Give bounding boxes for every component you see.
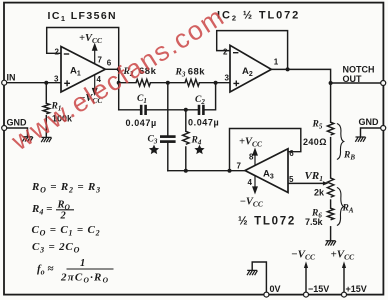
terminal GND left (2, 126, 7, 131)
svg-text:C3 = 2CO: C3 = 2CO (32, 241, 80, 254)
capacitor C3 (160, 137, 176, 142)
wire A3 +input to VR1 wiper (288, 182, 323, 184)
svg-text:1: 1 (80, 258, 85, 269)
svg-text:GND: GND (359, 117, 380, 127)
resistor R4 (183, 131, 189, 144)
ground symbol left GND (22, 137, 33, 142)
wire A1 feedback loop pin2 (47, 28, 119, 70)
node rail tee (117, 81, 121, 85)
svg-text:6: 6 (289, 149, 294, 158)
wire node down to rail and C-branch (118, 69, 120, 110)
svg-text:4: 4 (248, 178, 253, 187)
wire R1 bottom to ground (45, 116, 47, 138)
node rail to A2 input (214, 81, 218, 85)
potentiometer VR1 wiper arrow (323, 181, 329, 185)
svg-text:2: 2 (55, 48, 60, 57)
svg-text:0.047µ: 0.047µ (126, 118, 157, 128)
capacitor C1 0.047u (141, 105, 145, 115)
svg-text:IN: IN (7, 73, 16, 83)
star mark for R4 (194, 145, 204, 155)
svg-text:7: 7 (237, 162, 242, 171)
svg-text:3: 3 (54, 75, 59, 84)
brace RB (337, 124, 344, 160)
op-amp A1 (IC1 LF356N) (61, 47, 105, 93)
ground symbol right GND (355, 137, 365, 142)
wire 0V terminal up to ground (252, 262, 266, 292)
wire A2 output to notch corner (271, 69, 330, 83)
svg-text:1: 1 (274, 58, 279, 67)
star mark for C3 (149, 145, 159, 155)
wire C3 down to bootstrap rail (167, 143, 169, 171)
wire R5 to VR1 (330, 138, 332, 178)
terminal NOTCH OUT (381, 81, 386, 86)
node A2 feedback junction (286, 67, 290, 71)
resistor R3 68k (185, 79, 199, 86)
op-amp A3 +Vcc pin8 arrow (253, 149, 257, 165)
op-amp A1 -Vcc pin4 arrow (93, 75, 97, 94)
wire notch node to NOTCH OUT terminal (331, 82, 381, 84)
svg-text:7.5k: 7.5k (305, 217, 324, 227)
wire C1 to C2 (147, 109, 197, 111)
wire GND terminal to ground symbol (7, 128, 28, 137)
svg-text:240Ω: 240Ω (303, 137, 327, 147)
wire notch node down to R5 (330, 83, 332, 122)
ground symbol R1 (41, 137, 51, 142)
node A3 output junction (228, 169, 232, 173)
svg-text:fo ≈: fo ≈ (37, 263, 53, 276)
resistor R6 7.5k (327, 208, 333, 220)
op-amp A1 +Vcc pin7 arrow (93, 44, 97, 63)
svg-text:IC2 ½ TL072: IC2 ½ TL072 (217, 10, 300, 23)
arrow -Vcc supply (304, 261, 308, 268)
wire C2 right up to rail (205, 83, 216, 110)
wire R3 to A2 +input (199, 82, 230, 84)
svg-text:0V: 0V (270, 284, 281, 294)
node R1 tap (44, 81, 48, 85)
ground symbol R6 (325, 241, 335, 246)
wire R2 to node T (150, 82, 185, 84)
node T R2-R3-C3 (166, 81, 170, 85)
wire R6 to ground (330, 227, 332, 241)
op-amp A3 -Vcc pin4 arrow (253, 176, 257, 193)
resistor R2 68k (136, 79, 150, 86)
wire R1 tap from IN rail (45, 83, 47, 104)
wire A3 feedback loop pin6 (230, 129, 301, 171)
svg-text:2: 2 (60, 211, 67, 222)
svg-text:68k: 68k (188, 67, 206, 78)
svg-text:½ TL072: ½ TL072 (238, 216, 296, 228)
svg-text:0.047µ: 0.047µ (188, 118, 219, 128)
node C-branch R4 tap (184, 108, 188, 112)
potentiometer VR1 2k (327, 178, 333, 197)
terminal GND right (381, 126, 386, 131)
ground symbol 0V (247, 270, 257, 275)
wire A2 feedback loop pin2 (217, 31, 288, 70)
svg-text:OUT: OUT (343, 74, 363, 84)
svg-text:IC1 LF356N: IC1 LF356N (48, 10, 118, 23)
wire GND right terminal to ground (361, 128, 381, 137)
wire R4 down to bootstrap rail (185, 147, 187, 171)
svg-text:8: 8 (249, 153, 254, 162)
resistor R1 100k (43, 103, 49, 114)
terminal IN (2, 80, 7, 85)
terminal +15V (342, 292, 347, 297)
node A1 output junction (117, 67, 121, 71)
op-amp A3 (half TL072) (245, 149, 288, 193)
capacitor C2 0.047u (199, 105, 203, 115)
svg-text:7: 7 (98, 56, 103, 65)
terminal -15V (304, 292, 309, 297)
svg-text:2k: 2k (314, 188, 325, 198)
wire rail node to R2 (119, 82, 136, 84)
svg-text:2: 2 (223, 48, 228, 57)
wire VR1 to R6 (330, 200, 332, 208)
wire C-branch node down to R4 (185, 110, 187, 132)
node R4 bootstrap (184, 169, 188, 173)
wire -15V terminal up (305, 268, 307, 293)
svg-text:−15V: −15V (308, 284, 329, 294)
op-amp A2 (IC2 half TL072) (230, 45, 271, 92)
wire +15V terminal up (343, 268, 345, 293)
arrow +Vcc supply (342, 261, 346, 268)
wire C-branch left (119, 109, 140, 111)
terminal 0V (264, 292, 269, 297)
wire bootstrap rail to A3 output (168, 170, 245, 172)
wire A1 output to node (105, 68, 118, 70)
node notch tee (329, 81, 333, 85)
svg-text:3: 3 (225, 74, 230, 83)
resistor R5 240ohm (327, 122, 333, 135)
wire node T down to C3 (167, 83, 169, 135)
wire IN to A1 +input (7, 82, 62, 84)
svg-text:+15V: +15V (346, 284, 367, 294)
svg-text:5: 5 (289, 175, 294, 184)
brace RA (337, 188, 344, 226)
